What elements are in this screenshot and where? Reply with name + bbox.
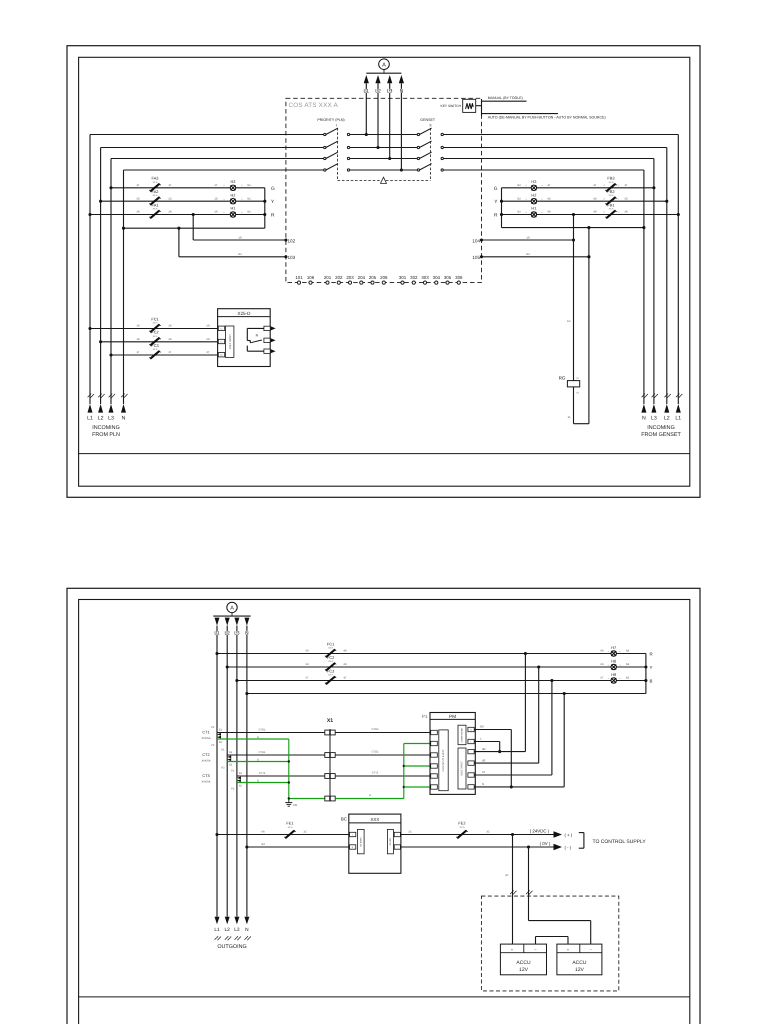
wire PM tap N — [563, 694, 565, 787]
node G label right — [494, 186, 498, 192]
fuse FC2 (page2) — [305, 655, 346, 671]
svg-text:KEY SWITCH: KEY SWITCH — [441, 104, 462, 108]
incoming genset terminal L2 — [664, 394, 671, 422]
svg-text:302: 302 — [410, 275, 418, 280]
svg-text:ACCU: ACCU — [572, 960, 587, 966]
svg-text:S2: S2 — [219, 741, 223, 744]
svg-text:2T: 2T — [206, 351, 209, 354]
svg-text:12V: 12V — [575, 967, 585, 973]
svg-text:104: 104 — [472, 238, 480, 243]
wire green CT common bus — [288, 739, 325, 799]
svg-text:INCOMING: INCOMING — [647, 425, 675, 431]
svg-text:XX A: XX A — [609, 181, 614, 184]
arrow 0V - — [554, 844, 572, 850]
svg-text:INCOMING: INCOMING — [92, 425, 120, 431]
lamp H3 (mains) — [214, 179, 251, 191]
wire green PM t6 — [404, 786, 432, 788]
svg-text:P1: P1 — [221, 748, 225, 751]
X25-D input terminal 3 — [218, 353, 224, 357]
wire lamp return to N right — [502, 226, 646, 229]
X25-D input terminal 1 — [218, 326, 224, 330]
incoming genset terminal L1 — [675, 394, 682, 422]
outgoing terminal L3 — [234, 917, 241, 941]
control supply bracket — [579, 833, 584, 849]
fuse FB2 — [593, 189, 627, 205]
BC output terminal + — [394, 832, 400, 836]
page 1 outer frame — [67, 46, 700, 498]
svg-text:AUTO (DE-MANUAL BY PUSH BUTTON: AUTO (DE-MANUAL BY PUSH BUTTON - AUTO BY… — [488, 115, 606, 119]
wire N feed drop (page1) — [400, 83, 403, 171]
node G label left — [271, 186, 275, 192]
wire FC3 row (page1) — [109, 353, 217, 356]
svg-text:L2: L2 — [98, 416, 104, 422]
fuse FB3 — [593, 176, 627, 192]
svg-text:BC: BC — [341, 817, 347, 822]
svg-text:S2: S2 — [229, 764, 233, 767]
svg-text:2C: 2C — [408, 831, 411, 834]
svg-text:2T: 2T — [214, 184, 217, 187]
wire lamp row H3 right (page1) — [502, 186, 656, 189]
svg-text:FC3: FC3 — [151, 343, 158, 348]
outgoing terminal N — [244, 917, 251, 941]
PM comm terminal N — [468, 727, 474, 731]
svg-text:N: N — [482, 782, 484, 786]
svg-text:CT1: CT1 — [202, 731, 209, 735]
svg-text:CTT1: CTT1 — [259, 772, 266, 775]
X1 terminal 2 — [325, 753, 335, 758]
svg-text:CTS2: CTS2 — [372, 751, 379, 754]
svg-text:201: 201 — [324, 275, 332, 280]
svg-text:XX A: XX A — [153, 208, 158, 211]
wire lamp common bus right — [500, 188, 503, 228]
BC AC IN label block — [358, 829, 365, 853]
fuse FE2 — [456, 821, 467, 839]
svg-text:PE: PE — [294, 803, 298, 807]
svg-text:FROM GENSET: FROM GENSET — [641, 432, 681, 438]
wire lamp common bus left — [263, 188, 266, 228]
wire PM L supply — [474, 737, 501, 754]
svg-text:6R: 6R — [600, 650, 603, 653]
svg-text:GENSET: GENSET — [420, 118, 436, 122]
svg-text:4S: 4S — [482, 758, 486, 762]
X25-D input terminal 2 — [218, 339, 224, 343]
svg-text:303: 303 — [421, 275, 429, 280]
incoming PLN terminal L2 — [98, 394, 105, 422]
wire CT2 S2 green — [227, 758, 289, 761]
svg-text:N2: N2 — [526, 253, 530, 256]
svg-text:H3: H3 — [231, 179, 236, 184]
svg-text:2S: 2S — [168, 197, 171, 200]
svg-text:3S: 3S — [624, 197, 627, 200]
svg-text:12V: 12V — [519, 967, 529, 973]
svg-text:XXX/5A: XXX/5A — [201, 759, 210, 762]
svg-text:( - ): ( - ) — [565, 845, 572, 850]
wire FC2 row (page1) — [99, 340, 218, 343]
svg-text:N3: N3 — [480, 725, 484, 729]
svg-text:XXX/5A: XXX/5A — [201, 737, 210, 740]
PM input terminal 5 — [431, 774, 438, 778]
wire row FC2 (page2) — [226, 665, 646, 668]
wire bus row 3 (page1) — [111, 158, 654, 160]
node B label (page2) — [650, 679, 653, 684]
wire L2 vertical (page2) — [226, 626, 228, 917]
svg-text:VOLT INPUT: VOLT INPUT — [461, 761, 464, 776]
node Y label right — [494, 199, 498, 205]
svg-text:203: 203 — [346, 275, 354, 280]
fuse FC3 — [136, 343, 209, 359]
fuse FC1 — [136, 316, 209, 332]
svg-text:106: 106 — [307, 275, 315, 280]
wire CT1 S2 green — [217, 736, 289, 739]
svg-text:FE1: FE1 — [286, 821, 293, 826]
svg-text:24 VDC: 24 VDC — [389, 837, 392, 845]
wire battery + drop — [505, 835, 516, 945]
svg-text:103: 103 — [288, 255, 296, 260]
wire lamp row H1 right (page1) — [502, 213, 680, 216]
svg-text:N3: N3 — [626, 677, 630, 680]
page 2 inner frame — [79, 600, 690, 1024]
X25-D output terminal 1 — [264, 326, 276, 330]
svg-text:301: 301 — [399, 275, 407, 280]
wire row FC3 (page2) — [235, 679, 646, 682]
wire CT2 S1 to X1 — [227, 751, 325, 755]
svg-text:CTS1: CTS1 — [259, 751, 266, 754]
svg-text:( 0V ): ( 0V ) — [540, 841, 551, 846]
fuse FC3 (page2) — [305, 668, 346, 684]
svg-text:6R: 6R — [261, 831, 264, 834]
svg-text:L3: L3 — [387, 89, 393, 95]
terminal strip X1 label — [327, 718, 333, 724]
incoming PLN terminal L1 — [87, 394, 94, 422]
ammeter A2 (page2) — [227, 602, 237, 616]
svg-text:XX A: XX A — [153, 335, 158, 338]
arrow 24VDC + — [554, 831, 573, 837]
wire PM volt N — [474, 782, 564, 787]
svg-text:G: G — [271, 186, 275, 192]
svg-text:105: 105 — [472, 255, 480, 260]
svg-text:N: N — [400, 89, 404, 95]
svg-text:304: 304 — [433, 275, 441, 280]
svg-text:1R: 1R — [567, 320, 570, 323]
svg-text:XXX: XXX — [371, 817, 380, 822]
X1 terminal 3 — [325, 774, 335, 779]
svg-text:N: N — [245, 927, 249, 933]
svg-text:CTR2: CTR2 — [372, 728, 379, 731]
svg-text:XX A: XX A — [153, 181, 158, 184]
wire lamp row H2 right (page1) — [502, 200, 669, 203]
wire L1 left drop (page1) — [89, 135, 91, 405]
svg-text:FE2: FE2 — [458, 821, 465, 826]
svg-text:L2: L2 — [664, 416, 670, 422]
svg-text:3R: 3R — [624, 211, 627, 214]
svg-text:H1: H1 — [231, 206, 236, 211]
svg-text:A: A — [230, 606, 234, 612]
svg-text:L3: L3 — [651, 416, 657, 422]
svg-text:2S: 2S — [206, 338, 209, 341]
svg-text:R: R — [271, 213, 275, 219]
svg-text:OUTGOING: OUTGOING — [217, 944, 246, 950]
fuse FA3 — [136, 176, 171, 192]
svg-text:N1: N1 — [238, 253, 242, 256]
incoming genset terminal N — [641, 394, 648, 422]
lamp H1 (mains) — [214, 206, 251, 218]
svg-text:I: I — [336, 124, 337, 128]
wire PM tap L3 — [551, 681, 553, 776]
key switch S0 — [441, 99, 482, 112]
PM input terminal 6 — [431, 785, 438, 789]
monitoring relay X25-D box — [218, 309, 271, 367]
feed arrow L1 (page2 top) — [214, 618, 220, 637]
wire L1 feed drop (page1) — [365, 83, 368, 136]
PM volt terminal 2 — [468, 761, 474, 765]
wire N vertical (page2) — [246, 626, 248, 917]
wire bus row 2 (page1) — [101, 147, 667, 149]
node Y label left — [271, 199, 275, 205]
svg-text:204: 204 — [358, 275, 366, 280]
svg-text:X25-D: X25-D — [237, 311, 251, 316]
wire N row (page2) — [245, 692, 646, 695]
wire PM tap L1 — [524, 654, 526, 752]
lamp H8 — [600, 658, 629, 669]
PM volt terminal 3 — [468, 773, 474, 777]
svg-text:1C: 1C — [303, 831, 306, 834]
svg-text:FB1: FB1 — [607, 202, 614, 207]
page 2 outer frame — [67, 588, 700, 1024]
wire green PM t2 — [404, 743, 432, 745]
PM input terminal 4 — [431, 764, 438, 768]
feeder bar (page1) — [366, 72, 401, 74]
svg-text:5T: 5T — [305, 677, 308, 680]
svg-text:R: R — [650, 652, 653, 657]
svg-text:R: R — [494, 213, 498, 219]
fuse FB1 — [593, 202, 627, 218]
svg-text:3C: 3C — [505, 874, 508, 877]
wire node 102 — [192, 213, 296, 243]
PM input terminal 1 — [431, 730, 438, 734]
svg-text:2T: 2T — [168, 351, 171, 354]
feed arrow N (page2 top) — [244, 618, 249, 637]
BC OUT label block — [387, 829, 393, 853]
svg-text:P1: P1 — [231, 769, 235, 772]
svg-text:( 24VDC ): ( 24VDC ) — [530, 828, 550, 833]
incoming PLN terminal L3 — [108, 394, 115, 422]
X25-D VOLT INPUT block — [226, 326, 234, 357]
svg-text:L2: L2 — [225, 927, 231, 933]
wire PM volt 4T — [474, 770, 552, 775]
svg-text:S1: S1 — [239, 772, 243, 775]
svg-text:P1: P1 — [422, 714, 428, 719]
wire L3 right drop genset (page1) — [653, 159, 655, 405]
wire bus row 1 (page1) — [90, 134, 678, 136]
svg-text:4T: 4T — [343, 677, 346, 680]
lamp H2 (mains) — [214, 192, 251, 204]
svg-text:6S: 6S — [600, 663, 603, 666]
BC input terminal L — [350, 832, 356, 836]
svg-text:S1: S1 — [229, 751, 233, 754]
wire battery series link — [536, 937, 569, 945]
svg-text:2S: 2S — [214, 197, 217, 200]
svg-text:2T: 2T — [168, 184, 171, 187]
svg-text:4T: 4T — [593, 184, 596, 187]
svg-text:A: A — [382, 62, 386, 68]
svg-text:L3: L3 — [108, 416, 114, 422]
svg-text:N1: N1 — [247, 197, 251, 200]
battery dashed enclosure — [481, 896, 618, 991]
wire lamp row H2 left (page1) — [99, 200, 265, 203]
svg-text:N: N — [122, 416, 126, 422]
wire L1 vertical (page2) — [216, 626, 218, 917]
PM comm terminal L — [468, 739, 474, 743]
svg-text:N: N — [642, 416, 646, 422]
relay coil RG — [559, 376, 580, 395]
svg-text:N: N — [245, 630, 249, 636]
ammeter A1 (page1) — [379, 59, 390, 73]
svg-text:FA3: FA3 — [152, 176, 159, 181]
svg-text:ACCU: ACCU — [516, 960, 531, 966]
current transformer CT1 — [201, 726, 222, 747]
svg-text:XX A: XX A — [153, 194, 158, 197]
wire 24VDC out — [401, 831, 554, 836]
svg-text:2R: 2R — [168, 211, 171, 214]
svg-text:4R: 4R — [593, 211, 596, 214]
svg-text:COS ATS XXX A: COS ATS XXX A — [289, 102, 339, 109]
svg-text:N1: N1 — [247, 184, 251, 187]
svg-text:5R: 5R — [305, 650, 308, 653]
svg-text:P2: P2 — [211, 744, 215, 747]
X25-D output terminal 3 — [264, 349, 276, 353]
svg-text:L2: L2 — [375, 89, 381, 95]
svg-text:N3: N3 — [626, 650, 630, 653]
wire BC N supply — [245, 843, 348, 848]
svg-text:3T: 3T — [624, 184, 627, 187]
wire BC L1 supply — [215, 831, 348, 836]
svg-text:N3: N3 — [626, 663, 630, 666]
wire lamp common bus (page2) — [644, 654, 647, 694]
svg-text:FB3: FB3 — [607, 176, 614, 181]
wire X1-PM CTS2 — [335, 751, 431, 756]
svg-text:FC1: FC1 — [327, 641, 334, 646]
fuse FA2 — [136, 189, 171, 205]
label 24VDC — [530, 828, 550, 833]
svg-text:P2: P2 — [221, 766, 225, 769]
svg-text:202: 202 — [335, 275, 343, 280]
PM comm block — [458, 725, 466, 745]
wire RG return to N — [568, 226, 591, 424]
wire N left drop (page1) — [123, 170, 125, 404]
svg-text:H9: H9 — [611, 672, 616, 677]
svg-text:N2: N2 — [517, 184, 521, 187]
svg-text:H3: H3 — [531, 179, 536, 184]
node Y label (page2) — [650, 665, 653, 670]
wire L2 left drop (page1) — [100, 148, 102, 405]
feed arrow L3 (page1 top) — [387, 75, 393, 95]
feed arrow L3 (page2 top) — [234, 618, 240, 637]
svg-text:N2: N2 — [517, 197, 521, 200]
svg-text:4S: 4S — [343, 663, 346, 666]
svg-text:N1: N1 — [247, 211, 251, 214]
feed arrow L2 (page2 top) — [225, 618, 231, 637]
lamp H9 — [600, 672, 629, 683]
fuse FC2 — [136, 330, 209, 346]
svg-text:XX A: XX A — [609, 194, 614, 197]
wire PM volt 4S — [474, 758, 539, 763]
page 1 inner frame — [79, 57, 690, 486]
wire node 104 — [472, 236, 575, 243]
X1 terminal 4 — [325, 796, 335, 801]
svg-text:4T: 4T — [482, 770, 486, 774]
power meter PM box — [422, 713, 475, 795]
svg-text:H2: H2 — [231, 192, 236, 197]
svg-text:3C: 3C — [486, 831, 489, 834]
svg-text:XX A: XX A — [288, 826, 293, 829]
svg-text:FC1: FC1 — [151, 316, 158, 321]
svg-text:FA2: FA2 — [152, 189, 159, 194]
caption outgoing — [217, 944, 246, 950]
wire L3 vertical (page2) — [236, 626, 238, 917]
svg-text:3S: 3S — [136, 197, 139, 200]
svg-text:FROM PLN: FROM PLN — [92, 432, 120, 438]
X25-D relay contact R — [247, 328, 264, 351]
svg-text:306: 306 — [455, 275, 463, 280]
svg-text:B: B — [650, 679, 653, 684]
svg-text:RG: RG — [559, 376, 566, 381]
wire green PM t4 — [404, 765, 432, 767]
svg-text:Y: Y — [650, 665, 653, 670]
node R label left — [271, 213, 275, 219]
svg-text:4R: 4R — [482, 747, 486, 751]
enclosure terminal strip 101-306 — [295, 275, 463, 284]
X25-D output terminal 2 — [264, 338, 276, 342]
svg-text:L2: L2 — [225, 630, 231, 636]
wire X1-PM CTR2 — [335, 728, 431, 733]
svg-text:102: 102 — [288, 238, 296, 243]
wire FC1 row (page1) — [88, 327, 217, 330]
outgoing terminal L1 — [214, 917, 221, 941]
svg-text:COMM RS485: COMM RS485 — [461, 727, 464, 742]
wire RG supply from R phase — [567, 213, 575, 381]
lamp H7 — [600, 645, 629, 656]
svg-text:L1: L1 — [214, 927, 220, 933]
svg-text:S1: S1 — [219, 728, 223, 731]
svg-text:FC2: FC2 — [151, 330, 158, 335]
feed arrow N (page1 top) — [399, 75, 404, 95]
mechanical interlock linkage — [338, 177, 431, 183]
svg-text:II: II — [430, 124, 432, 128]
wire lamp return to N left — [122, 227, 265, 230]
svg-text:XX A: XX A — [153, 322, 158, 325]
PM volt input label block — [458, 748, 466, 789]
svg-text:( + ): ( + ) — [565, 832, 573, 837]
incoming PLN terminal N — [121, 394, 128, 422]
wire bus row 4 (page1) — [124, 169, 644, 171]
fuse FE1 — [284, 821, 295, 839]
svg-text:4R: 4R — [547, 211, 550, 214]
svg-text:N4: N4 — [261, 843, 265, 846]
wire CT3 S2 green — [237, 779, 289, 782]
ATS enclosure dashed box — [286, 98, 482, 282]
svg-text:CTT2: CTT2 — [372, 772, 379, 775]
battery charger BC box — [341, 814, 401, 873]
svg-text:1R: 1R — [238, 236, 241, 239]
ground PE — [285, 797, 297, 807]
PM input terminal 3 — [431, 753, 438, 757]
svg-text:3R: 3R — [136, 211, 139, 214]
node R label (page2) — [650, 652, 653, 657]
outgoing terminal L2 — [225, 917, 232, 941]
BC input terminal N — [350, 845, 356, 849]
svg-text:2R: 2R — [168, 325, 171, 328]
svg-text:6T: 6T — [600, 677, 603, 680]
